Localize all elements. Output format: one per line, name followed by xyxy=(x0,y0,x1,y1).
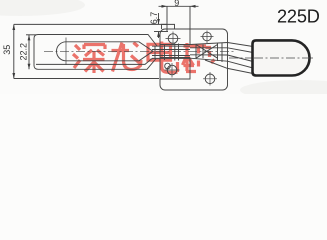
linkage joints xyxy=(196,43,222,63)
pivot pin hole xyxy=(168,34,178,44)
technical drawing xyxy=(14,6,313,90)
clevis joints xyxy=(155,44,179,61)
handle grip xyxy=(253,40,310,75)
toggle cross links xyxy=(196,45,218,59)
arrow 22.2 top xyxy=(28,35,31,41)
svg-text:225D: 225D xyxy=(277,7,320,27)
char 电 xyxy=(148,42,178,73)
svg-text:22.2: 22.2 xyxy=(19,43,29,61)
dimension arrows xyxy=(12,5,195,79)
dimension 6.7 upper arrow line xyxy=(158,13,160,24)
arrow 9 left xyxy=(162,5,168,8)
arrow 22.2 bottom xyxy=(28,64,31,70)
dimension 6.7 lower arrow line xyxy=(158,32,160,39)
arm slot xyxy=(57,42,154,61)
svg-text:35: 35 xyxy=(2,45,12,55)
arrow 35 top xyxy=(12,24,15,30)
arm centerline xyxy=(44,50,236,52)
mounting hole top right xyxy=(203,32,212,41)
char 深 xyxy=(73,45,105,74)
arm bend line xyxy=(36,59,152,65)
dimension 35 line xyxy=(13,24,15,78)
lever linkage right xyxy=(190,43,228,69)
lever linkage left xyxy=(152,46,190,58)
dimension 9 extension right xyxy=(189,6,191,29)
arrow 6.7 bottom xyxy=(157,32,160,37)
bracket walls xyxy=(160,29,190,79)
watermark 深龙电机 (red, under drawing) xyxy=(73,42,215,74)
lower pivot hole xyxy=(167,65,177,75)
dimension 22.2 extension xyxy=(26,34,36,36)
base plate xyxy=(160,29,228,90)
handle neck xyxy=(228,43,254,74)
dimension texts xyxy=(2,0,179,60)
dimension 35 extension top xyxy=(14,23,167,25)
dimension 22.2 line xyxy=(28,35,30,70)
arrow 9 right xyxy=(190,5,196,8)
arrow 6.7 top xyxy=(157,19,160,24)
grip centerline xyxy=(254,57,313,59)
dimension 6.7 extension xyxy=(154,31,168,33)
arrow 35 bottom xyxy=(12,73,15,79)
bracket top tab xyxy=(162,24,175,29)
svg-text:9: 9 xyxy=(174,0,179,8)
mounting hole bottom right xyxy=(205,74,215,84)
char 龙 xyxy=(112,43,142,72)
handle centerline xyxy=(229,57,313,59)
svg-text:6.7: 6.7 xyxy=(149,12,159,25)
slot center mark xyxy=(65,38,67,66)
clamp arm outer xyxy=(34,35,157,70)
dimension 9 line xyxy=(159,5,199,7)
dimension 9 extension left xyxy=(166,6,168,31)
char 机 xyxy=(183,43,215,72)
dimension 35 extension bottom xyxy=(14,78,159,80)
